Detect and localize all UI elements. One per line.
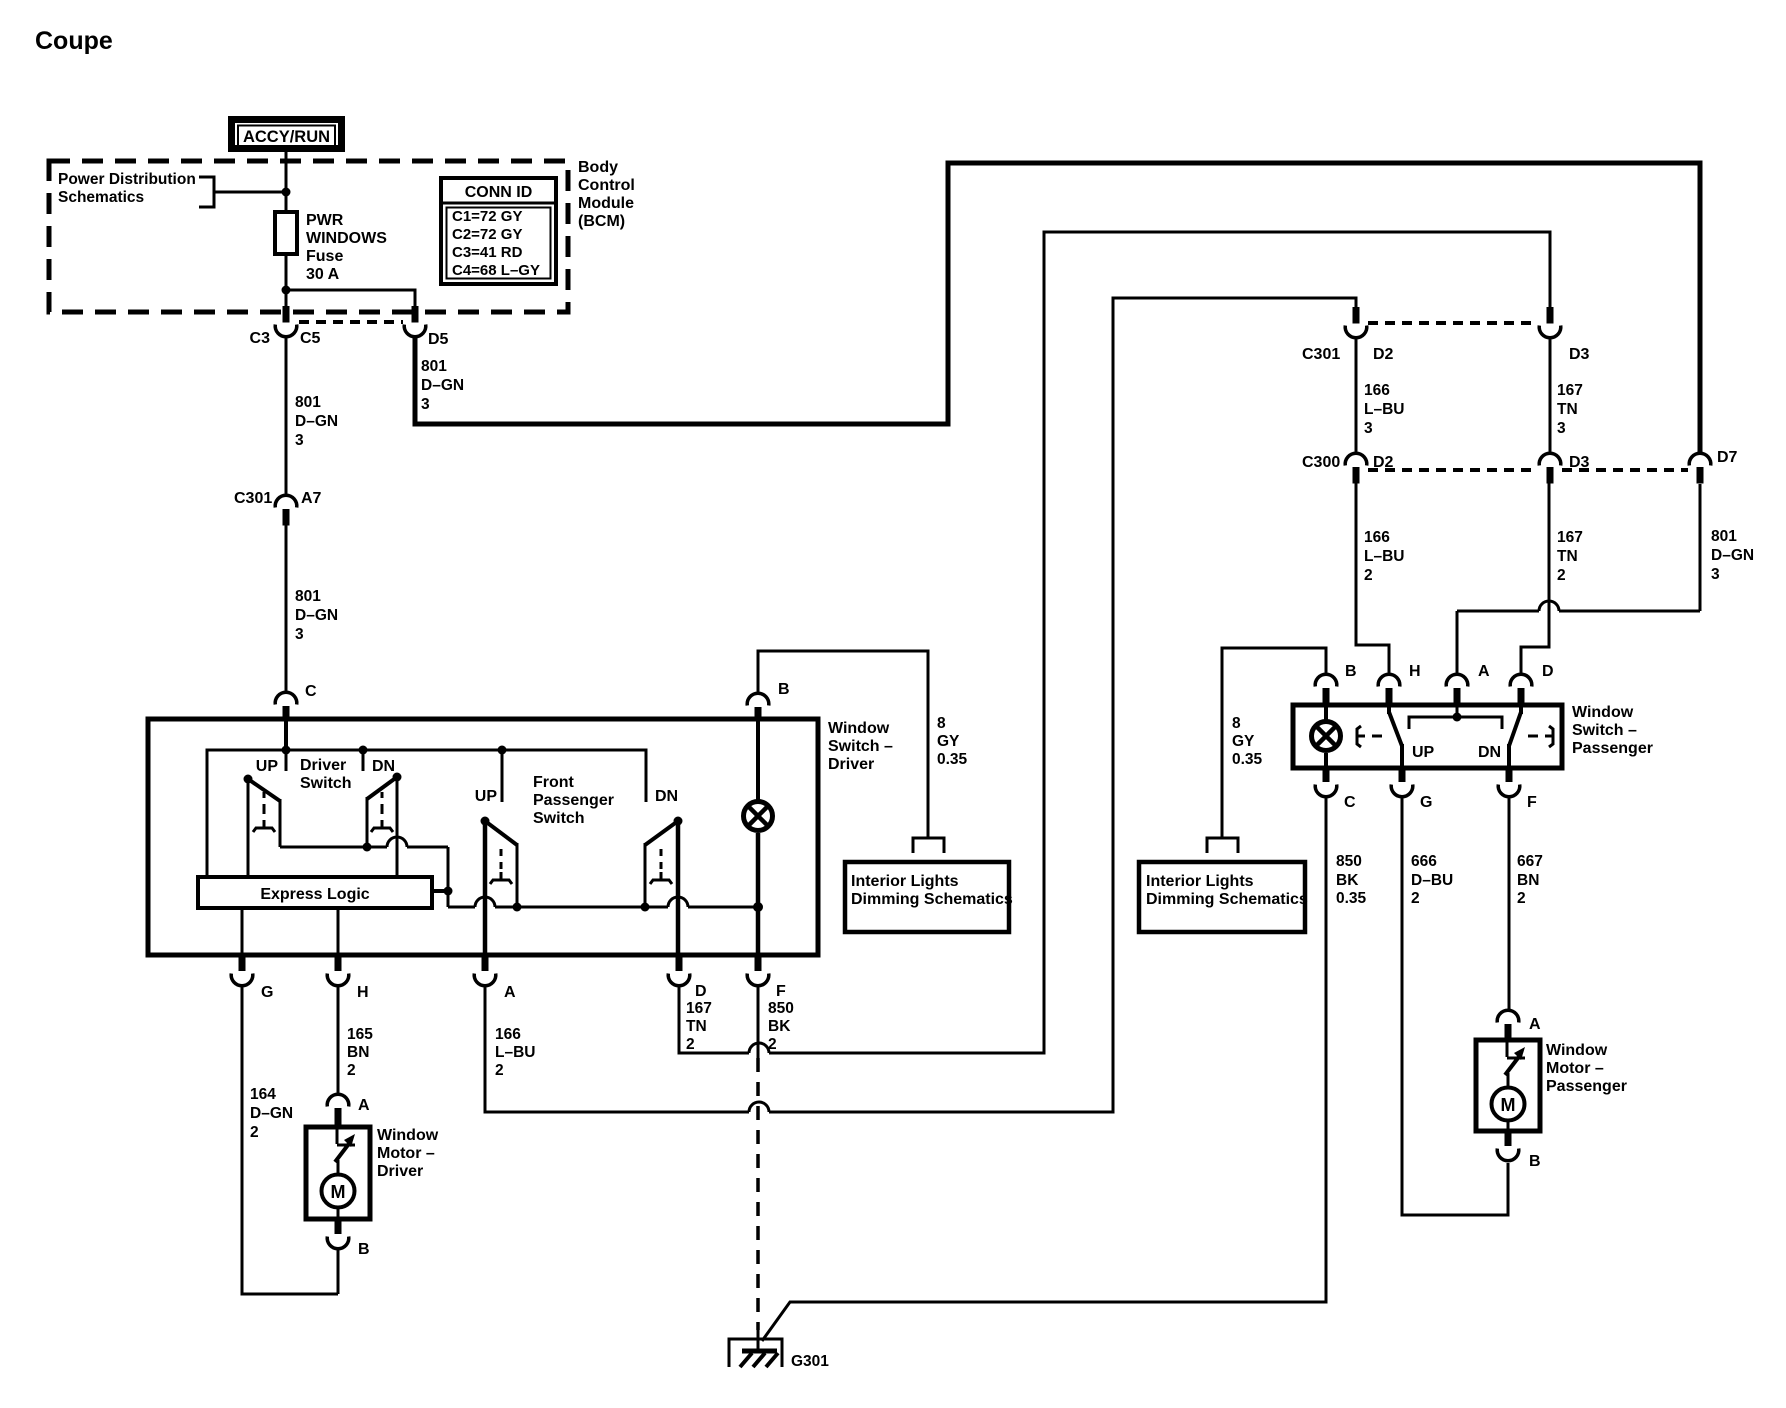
svg-text:2: 2 xyxy=(768,1036,777,1053)
svg-text:Fuse: Fuse xyxy=(306,248,343,265)
junction node bus DN driver xyxy=(359,746,368,755)
wire 166 L-BU 3 C301 to C300 xyxy=(1355,339,1358,454)
contact DN driver xyxy=(362,750,365,771)
connector A window motor passenger xyxy=(1497,1010,1519,1041)
switch DN front passenger xyxy=(645,817,683,957)
svg-text:D–GN: D–GN xyxy=(421,377,464,394)
label Front Passenger Switch xyxy=(533,774,614,827)
svg-text:A: A xyxy=(1529,1016,1541,1033)
connector A driver switch xyxy=(474,956,496,986)
svg-text:Switch: Switch xyxy=(533,810,585,827)
wire 8 GY passenger B to dimming xyxy=(1222,648,1326,838)
svg-text:Driver: Driver xyxy=(300,757,346,774)
svg-text:A7: A7 xyxy=(301,490,322,507)
svg-text:D–GN: D–GN xyxy=(295,607,338,624)
dotted line C301 D2-D3 xyxy=(1368,321,1538,325)
switch DN driver xyxy=(367,773,402,878)
dotted line C300 D2-D3 xyxy=(1368,468,1538,472)
svg-text:167: 167 xyxy=(1557,382,1583,399)
svg-text:Switch: Switch xyxy=(300,775,352,792)
wire 166 L-BU A to passenger H xyxy=(485,985,749,1112)
wire 850 BK F to ground xyxy=(757,985,760,1058)
window switch driver box xyxy=(148,719,818,955)
connector B driver switch xyxy=(747,693,769,721)
svg-text:C: C xyxy=(1344,794,1356,811)
window switch passenger box xyxy=(1293,705,1562,768)
wire express logic stub xyxy=(432,889,448,893)
svg-text:0.35: 0.35 xyxy=(1232,751,1263,768)
svg-text:Driver: Driver xyxy=(828,756,874,773)
svg-text:C: C xyxy=(305,683,317,700)
circuit breaker motor driver xyxy=(335,1129,355,1176)
svg-text:D3: D3 xyxy=(1569,346,1590,363)
svg-text:C3: C3 xyxy=(250,330,271,347)
label 666 D-BU 2 xyxy=(1411,853,1453,907)
motor M passenger xyxy=(1492,1088,1525,1132)
svg-text:D–BU: D–BU xyxy=(1411,872,1453,889)
svg-text:G301: G301 xyxy=(791,1353,829,1370)
label 166 L-BU 3 xyxy=(1364,382,1404,437)
svg-text:D–GN: D–GN xyxy=(250,1105,293,1122)
connector B passenger switch xyxy=(1315,674,1337,705)
svg-text:Module: Module xyxy=(578,195,634,212)
svg-text:C2=72 GY: C2=72 GY xyxy=(452,226,522,243)
svg-text:2: 2 xyxy=(495,1062,504,1079)
svg-text:PWR: PWR xyxy=(306,212,344,229)
lamp passenger switch illumination xyxy=(1312,705,1341,768)
svg-text:C5: C5 xyxy=(300,330,321,347)
svg-text:H: H xyxy=(1409,663,1421,680)
svg-text:666: 666 xyxy=(1411,853,1437,870)
label 166 L-BU 2 passenger xyxy=(1364,529,1404,584)
wire 801 D-GN D5 run to D7 xyxy=(415,163,1700,454)
connector A passenger switch xyxy=(1446,674,1468,705)
svg-text:164: 164 xyxy=(250,1086,276,1103)
svg-text:F: F xyxy=(1527,794,1537,811)
svg-text:C300: C300 xyxy=(1302,454,1340,471)
svg-text:2: 2 xyxy=(1517,890,1526,907)
svg-text:850: 850 xyxy=(768,1000,794,1017)
svg-text:(BCM): (BCM) xyxy=(578,213,625,230)
wire motor driver B loop xyxy=(337,1248,340,1294)
label 801 D-GN 3 xyxy=(295,588,338,643)
svg-text:Control: Control xyxy=(578,177,635,194)
svg-text:801: 801 xyxy=(295,394,321,411)
label 801 D-GN 3 D7 xyxy=(1711,528,1754,583)
svg-text:3: 3 xyxy=(421,396,430,413)
wire driver switch common xyxy=(280,837,453,907)
svg-text:Coupe: Coupe xyxy=(35,27,113,55)
label 8 GY 0.35 xyxy=(937,715,968,768)
svg-text:Passenger: Passenger xyxy=(1546,1078,1627,1095)
wire 801 D-GN D7 down to passenger A xyxy=(1457,484,1700,676)
svg-text:D2: D2 xyxy=(1373,346,1394,363)
label PWR WINDOWS Fuse 30 A xyxy=(306,212,387,283)
svg-text:BK: BK xyxy=(768,1018,791,1035)
wire 166 L-BU passenger H up to C300 xyxy=(1356,483,1389,676)
connector H driver switch xyxy=(327,956,349,986)
svg-text:3: 3 xyxy=(295,432,304,449)
wire B to dimming schematics xyxy=(758,651,928,838)
connector C301 D3 xyxy=(1539,307,1561,338)
svg-text:667: 667 xyxy=(1517,853,1543,870)
connector C301 D2 xyxy=(1345,307,1367,338)
wire C into bus xyxy=(284,721,288,750)
connector B window motor driver xyxy=(327,1219,349,1249)
connector F passenger switch xyxy=(1498,768,1520,797)
svg-text:CONN ID: CONN ID xyxy=(465,184,533,201)
dotted connector line C5-D5 xyxy=(299,320,403,324)
svg-text:2: 2 xyxy=(250,1124,259,1141)
express logic box xyxy=(198,877,432,908)
label 167 TN 2 passenger xyxy=(1557,529,1583,584)
svg-text:UP: UP xyxy=(256,758,279,775)
svg-text:C301: C301 xyxy=(234,490,272,507)
svg-text:TN: TN xyxy=(1557,548,1578,565)
svg-text:UP: UP xyxy=(1412,744,1435,761)
svg-text:2: 2 xyxy=(1411,890,1420,907)
svg-text:C3=41 RD: C3=41 RD xyxy=(452,244,523,261)
wire 165 BN H to motor A xyxy=(337,985,340,1095)
lamp driver switch illumination xyxy=(744,721,773,956)
junction node at fuse feed xyxy=(282,188,291,197)
svg-text:Switch –: Switch – xyxy=(828,738,893,755)
label 164 D-GN 2 xyxy=(250,1086,293,1141)
connector G driver switch xyxy=(231,956,253,986)
svg-text:8: 8 xyxy=(937,715,946,732)
fuse PWR WINDOWS 30 A xyxy=(275,212,297,254)
label 167 TN 2 (driver D) xyxy=(686,1000,712,1053)
wire to passenger switches common xyxy=(448,897,763,912)
svg-text:2: 2 xyxy=(347,1062,356,1079)
connector F driver switch xyxy=(747,956,769,986)
svg-text:801: 801 xyxy=(1711,528,1737,545)
svg-text:D: D xyxy=(1542,663,1554,680)
connector C300 D2 xyxy=(1345,453,1367,483)
svg-text:D–GN: D–GN xyxy=(295,413,338,430)
svg-text:3: 3 xyxy=(1711,566,1720,583)
svg-text:C1=72 GY: C1=72 GY xyxy=(452,208,522,225)
junction node bus UP passenger xyxy=(498,746,507,755)
ground G301 xyxy=(729,1339,782,1367)
svg-text:M: M xyxy=(1501,1095,1516,1115)
CONN ID table xyxy=(441,178,556,284)
label 167 TN 3 xyxy=(1557,382,1583,437)
label Window Motor - Passenger xyxy=(1546,1042,1627,1095)
dotted line C300 D3-D7 xyxy=(1562,468,1688,472)
bracket to Power Distribution Schematics xyxy=(199,177,214,207)
wire 667 BN passenger F to motor A xyxy=(1508,796,1511,1011)
svg-text:Power Distribution: Power Distribution xyxy=(58,171,196,188)
label Driver Switch xyxy=(300,757,352,792)
svg-text:165: 165 xyxy=(347,1026,373,1043)
svg-text:Window: Window xyxy=(1546,1042,1608,1059)
contact UP driver xyxy=(285,750,288,771)
wire 167 TN 3 C301 to C300 xyxy=(1549,339,1552,454)
interior lights dimming box passenger xyxy=(1139,862,1308,932)
svg-text:A: A xyxy=(1478,663,1490,680)
svg-text:DN: DN xyxy=(655,788,678,805)
label 667 BN 2 xyxy=(1517,853,1543,907)
power source box ACCY/RUN xyxy=(232,120,342,149)
svg-text:Express Logic: Express Logic xyxy=(260,886,369,903)
svg-text:Interior Lights: Interior Lights xyxy=(851,873,959,890)
svg-text:B: B xyxy=(358,1241,370,1258)
svg-text:L–BU: L–BU xyxy=(495,1044,535,1061)
svg-text:166: 166 xyxy=(495,1026,521,1043)
svg-text:Body: Body xyxy=(578,159,618,176)
svg-text:Passenger: Passenger xyxy=(1572,740,1653,757)
wire 167 TN passenger D up to C300 xyxy=(1521,483,1549,676)
wire 167 TN D to passenger D xyxy=(679,985,749,1053)
label 850 BK 2 xyxy=(768,1000,794,1053)
wire express logic output H xyxy=(337,908,340,956)
wire 850 BK passenger C to ground xyxy=(762,796,1326,1341)
svg-text:DN: DN xyxy=(372,758,395,775)
svg-text:801: 801 xyxy=(295,588,321,605)
svg-text:A: A xyxy=(504,984,516,1001)
wire bracket to node xyxy=(214,191,286,194)
svg-text:GY: GY xyxy=(1232,733,1255,750)
wire branch to D5 xyxy=(286,290,415,308)
svg-text:3: 3 xyxy=(1557,420,1566,437)
svg-text:C4=68 L–GY: C4=68 L–GY xyxy=(452,262,540,279)
svg-text:801: 801 xyxy=(421,358,447,375)
svg-text:TN: TN xyxy=(1557,401,1578,418)
svg-text:Motor –: Motor – xyxy=(377,1145,435,1162)
wire 801 D-GN C3 to C301 xyxy=(285,338,288,495)
connector C301 A7 xyxy=(275,495,297,525)
off-page bracket passenger dimming xyxy=(1207,838,1238,853)
svg-text:30 A: 30 A xyxy=(306,266,340,283)
motor M driver xyxy=(322,1175,355,1220)
connector A window motor driver xyxy=(327,1094,349,1127)
switch DN passenger unit xyxy=(1509,705,1553,768)
switch UP front passenger xyxy=(481,817,518,957)
svg-text:L–BU: L–BU xyxy=(1364,401,1404,418)
connector D5 pin xyxy=(404,306,426,337)
svg-text:B: B xyxy=(778,681,790,698)
off-page bracket driver dimming xyxy=(913,838,944,853)
wire 666 D-BU passenger G to motor loop xyxy=(1402,796,1508,1215)
switch UP driver xyxy=(244,775,281,880)
window motor driver box xyxy=(306,1127,370,1219)
label 801 D-GN 3 (D5 wire) xyxy=(421,358,464,413)
connector C3/C5 pin xyxy=(275,306,297,337)
svg-text:B: B xyxy=(1345,663,1357,680)
label 801 D-GN 3 xyxy=(295,394,338,449)
wire 801 D-GN A7 to C xyxy=(285,525,288,693)
connector D driver switch xyxy=(668,956,690,986)
svg-text:Schematics: Schematics xyxy=(58,189,144,206)
svg-text:D5: D5 xyxy=(428,331,449,348)
connector C300 D3 xyxy=(1539,453,1561,483)
svg-text:A: A xyxy=(358,1097,370,1114)
window motor passenger box xyxy=(1476,1040,1540,1131)
label Window Motor - Driver xyxy=(377,1127,439,1180)
switch UP passenger unit xyxy=(1357,705,1402,768)
svg-text:TN: TN xyxy=(686,1018,707,1035)
svg-text:850: 850 xyxy=(1336,853,1362,870)
svg-text:Window: Window xyxy=(377,1127,439,1144)
connector H passenger switch xyxy=(1378,674,1400,705)
label Power Distribution Schematics xyxy=(58,171,196,206)
svg-text:Motor –: Motor – xyxy=(1546,1060,1604,1077)
svg-text:M: M xyxy=(331,1182,346,1202)
svg-text:UP: UP xyxy=(475,788,498,805)
svg-text:Window: Window xyxy=(828,720,890,737)
wire ACCY/RUN to fuse xyxy=(285,152,288,212)
svg-text:Dimming Schematics: Dimming Schematics xyxy=(1146,891,1308,908)
label Window Switch - Passenger xyxy=(1572,704,1653,757)
svg-text:166: 166 xyxy=(1364,529,1390,546)
svg-text:BN: BN xyxy=(347,1044,369,1061)
label 8 GY 0.35 passenger xyxy=(1232,715,1263,768)
svg-text:0.35: 0.35 xyxy=(937,751,968,768)
wire fuse to BCM exit xyxy=(285,254,288,308)
svg-text:GY: GY xyxy=(937,733,960,750)
label 165 BN 2 xyxy=(347,1026,373,1079)
wire 164 D-GN G to motor loop xyxy=(242,985,338,1294)
svg-text:B: B xyxy=(1529,1153,1541,1170)
svg-text:Passenger: Passenger xyxy=(533,792,614,809)
svg-text:167: 167 xyxy=(1557,529,1583,546)
power bracket passenger switch xyxy=(1409,705,1502,729)
svg-text:Front: Front xyxy=(533,774,575,791)
svg-text:L–BU: L–BU xyxy=(1364,548,1404,565)
connector C passenger switch xyxy=(1315,768,1337,797)
svg-text:Interior Lights: Interior Lights xyxy=(1146,873,1254,890)
svg-text:Window: Window xyxy=(1572,704,1634,721)
svg-text:G: G xyxy=(261,984,273,1001)
svg-text:D–GN: D–GN xyxy=(1711,547,1754,564)
interior lights dimming box driver xyxy=(845,862,1013,932)
svg-text:ACCY/RUN: ACCY/RUN xyxy=(243,128,330,146)
connector C driver switch xyxy=(275,692,297,721)
svg-text:8: 8 xyxy=(1232,715,1241,732)
circuit breaker motor passenger xyxy=(1505,1042,1525,1089)
svg-text:H: H xyxy=(357,984,369,1001)
svg-text:Dimming Schematics: Dimming Schematics xyxy=(851,891,1013,908)
svg-text:2: 2 xyxy=(1557,567,1566,584)
label Window Switch - Driver xyxy=(828,720,893,773)
connector B window motor passenger xyxy=(1497,1131,1519,1161)
label Body Control Module (BCM) xyxy=(578,159,635,230)
wire express logic output G xyxy=(241,908,244,956)
label 166 L-BU 2 xyxy=(495,1026,535,1079)
svg-text:Switch –: Switch – xyxy=(1572,722,1637,739)
label 850 BK 0.35 xyxy=(1336,853,1367,907)
BCM dashed border xyxy=(49,161,568,312)
svg-text:3: 3 xyxy=(1364,420,1373,437)
svg-text:2: 2 xyxy=(686,1036,695,1053)
svg-text:3: 3 xyxy=(295,626,304,643)
svg-text:BK: BK xyxy=(1336,872,1359,889)
svg-text:166: 166 xyxy=(1364,382,1390,399)
contact UP passenger xyxy=(501,750,504,802)
svg-text:G: G xyxy=(1420,794,1432,811)
svg-text:2: 2 xyxy=(1364,567,1373,584)
svg-text:0.35: 0.35 xyxy=(1336,890,1367,907)
junction node fuse output xyxy=(282,286,291,295)
svg-text:167: 167 xyxy=(686,1000,712,1017)
svg-text:D: D xyxy=(695,983,707,1000)
svg-text:C301: C301 xyxy=(1302,346,1340,363)
svg-text:D7: D7 xyxy=(1717,449,1738,466)
svg-text:BN: BN xyxy=(1517,872,1539,889)
connector G passenger switch xyxy=(1391,768,1413,797)
connector D passenger switch xyxy=(1510,674,1532,705)
junction node bus C xyxy=(282,746,291,755)
svg-text:WINDOWS: WINDOWS xyxy=(306,230,387,247)
bus wire in driver switch xyxy=(207,750,646,879)
connector C300 D7 xyxy=(1689,453,1711,483)
svg-text:Driver: Driver xyxy=(377,1163,423,1180)
svg-text:DN: DN xyxy=(1478,744,1501,761)
svg-text:F: F xyxy=(776,983,786,1000)
